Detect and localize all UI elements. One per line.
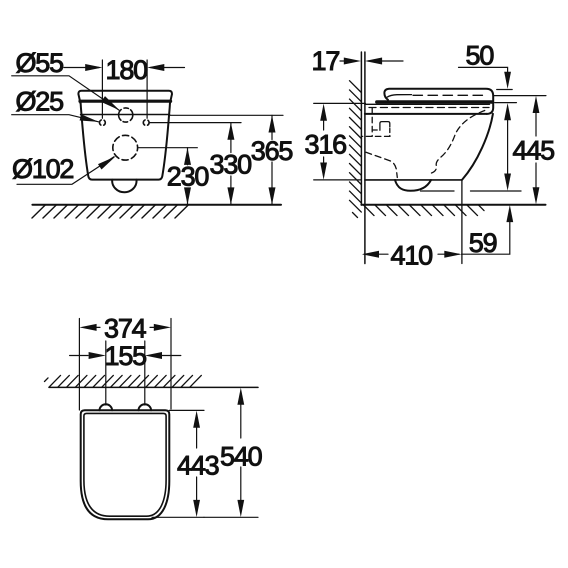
front view: ceramic rim bottom line [81,114,170,116]
side view: floor line [361,204,545,206]
dimension 540 [204,388,262,518]
front view: seat thick black band [80,100,171,103]
plan view: wall hatching [45,375,202,387]
dimension 374 [79,314,171,411]
front view: hole circle Ø25 right dashed [143,120,149,126]
front view: floor hatching [32,205,189,218]
label Ø25 with leader and arrow [12,87,99,122]
dimension 230 [167,148,209,205]
side view: mounting box vertical line [461,180,463,264]
svg-text:155: 155 [105,341,147,371]
dimension 443 [152,410,219,517]
side view: ceramic rim band [365,104,490,114]
dimension 155 [70,341,181,371]
svg-text:374: 374 [104,314,147,344]
svg-text:230: 230 [167,162,209,192]
svg-text:17: 17 [312,46,340,76]
svg-text:180: 180 [106,55,148,85]
svg-text:Ø55: Ø55 [16,48,64,78]
svg-text:59: 59 [469,228,497,258]
side view: bowl bottom dip [395,180,431,191]
side view: wall lines [361,52,365,264]
svg-text:Ø102: Ø102 [12,154,73,184]
dimension 17 [312,46,404,76]
dimension 316 [305,103,366,179]
svg-text:365: 365 [251,136,293,166]
side view: flush duct dashed [363,108,391,136]
extension line from body right (365 ref) [169,114,283,116]
side view: inner bowl dashed profile right [432,110,487,173]
plan view: toilet inner outline [84,413,166,516]
dimension 365 [251,115,293,204]
front view: toilet lid/seat outer outline [78,91,172,180]
svg-text:50: 50 [466,41,494,71]
front view: hole circle Ø25 left dashed [100,120,106,126]
front view: drain outlet bump [112,180,136,193]
front view: hole circle Ø102 dashed [113,135,138,160]
svg-text:445: 445 [513,136,555,166]
dimension 180 [64,55,185,118]
plan view: wall line [49,386,258,388]
side view: seat and lid profile [384,89,493,114]
front view: hole circle Ø55 dashed [119,108,133,122]
extension line from Ø102 hole (230 ref) [138,147,197,149]
svg-text:330: 330 [210,150,252,180]
side view: ceramic bottom line [365,179,462,181]
plan view: toilet outer outline [81,410,170,519]
label Ø102 with leader and arrow [12,154,116,184]
svg-text:410: 410 [391,241,433,271]
side view: body right profile curve [462,114,493,180]
side view: drain reference line y191 [421,190,522,192]
dimension 59 [462,205,514,258]
plan view: right bolt bump [139,404,152,410]
dimension 50 [459,41,517,191]
svg-text:316: 316 [305,130,347,160]
dimension 445 [493,96,554,205]
dimension 330 [210,123,252,205]
plan view: left bolt bump [99,404,112,410]
extension line from right Ø25 hole (330 ref) [150,122,241,124]
front view: floor line [32,204,281,206]
side view: seat hinge thick bar [377,100,493,103]
dimension 410 [362,241,462,271]
side view: inner bowl dashed profile left [366,152,397,177]
side view: floor hatching [364,205,485,216]
side view: wall hatching [350,81,362,218]
label Ø55 with leader and arrow [12,48,120,110]
svg-text:443: 443 [177,451,219,481]
svg-text:Ø25: Ø25 [16,87,64,117]
plan view: bolt centerlines [106,341,145,405]
